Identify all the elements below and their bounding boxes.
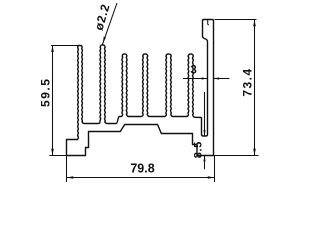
svg-text:59.5: 59.5 [39,78,53,107]
svg-text:3: 3 [190,65,196,77]
svg-text:73.4: 73.4 [241,67,255,96]
svg-text:79.8: 79.8 [130,162,154,176]
svg-text:8.5: 8.5 [192,141,204,158]
